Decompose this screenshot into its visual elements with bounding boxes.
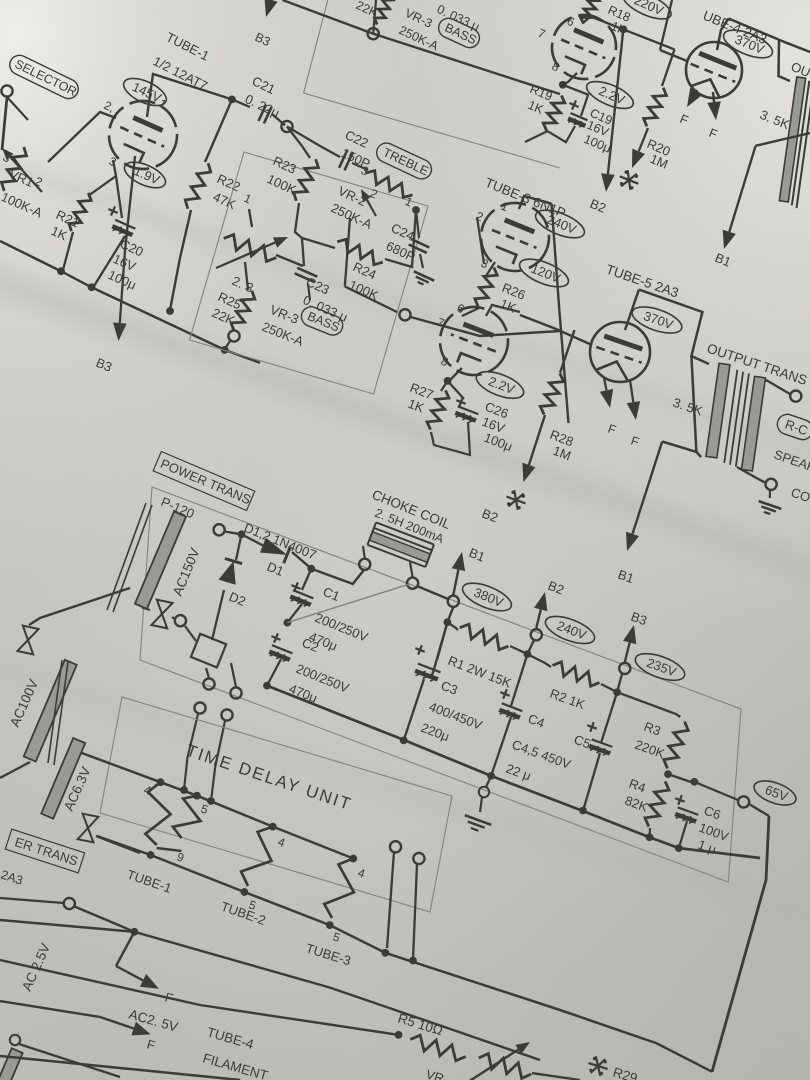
wire tube3 plate up xyxy=(519,196,552,209)
wire C1 top xyxy=(302,569,311,590)
pin 5 td2 xyxy=(247,898,258,914)
wire C1 to C2 xyxy=(287,604,302,623)
junction R3 R4 xyxy=(664,770,672,778)
wire tube4 plate up xyxy=(717,19,729,51)
label pin 1 xyxy=(157,96,169,112)
winding AC150V xyxy=(135,512,186,609)
junction C5 bus xyxy=(579,807,587,815)
wire vr3 to C23 xyxy=(276,255,303,266)
label R5 10ohm xyxy=(396,1011,444,1039)
wire R3R4 to C6 node xyxy=(668,774,691,782)
wire R21 to bus xyxy=(63,232,73,270)
wire ac25 bus xyxy=(0,907,540,1061)
box lower tone control xyxy=(190,152,429,394)
tube U5 TUBE-5 xyxy=(590,322,650,382)
winding AC100V xyxy=(24,660,77,762)
wire cathode down long xyxy=(125,156,135,250)
junction C2 bus xyxy=(263,682,271,690)
label R20 xyxy=(645,136,673,172)
wire opt5 primary bottom xyxy=(662,442,696,452)
wire tube2 cathode down xyxy=(563,73,577,85)
wire R2 left xyxy=(527,654,551,667)
junction R1 C4 xyxy=(524,650,532,658)
label R2 1K xyxy=(548,686,587,713)
label TIME DELAY UNIT xyxy=(184,741,355,814)
resistor 22K upper xyxy=(354,0,394,25)
resistor R23 xyxy=(265,153,319,201)
terminal power top xyxy=(214,524,225,535)
terminal tube3 grid xyxy=(399,309,410,320)
wire to R21 xyxy=(88,176,116,196)
resistor R3 xyxy=(633,719,688,769)
label TUBE-3 td xyxy=(304,941,353,969)
label R21 xyxy=(54,207,82,230)
pin 4 td1 xyxy=(142,783,153,799)
label TUBE-4 fil xyxy=(205,1024,256,1052)
wire opt5 secondary top xyxy=(766,380,790,394)
label TUBE-1 xyxy=(164,29,212,63)
wire 235 node down xyxy=(617,674,622,692)
label CHOKE COIL xyxy=(370,487,453,532)
junction td term2 bus xyxy=(409,957,417,965)
label TUBE-3 6N1P xyxy=(483,175,568,221)
terminal upper channel xyxy=(368,28,379,39)
junction B3 stem xyxy=(221,346,229,354)
diode D1 xyxy=(260,537,291,563)
terminal sec C xyxy=(194,702,205,713)
wire R3 branch xyxy=(617,692,680,717)
terminal choke left xyxy=(359,559,370,570)
label R29 xyxy=(611,1065,639,1080)
junction R5 left xyxy=(395,1031,403,1039)
label 3.5K tube5 xyxy=(671,395,705,419)
potentiometer VR1 xyxy=(2,147,43,192)
label VR bottom xyxy=(424,1067,450,1080)
wire b1 step tube4 xyxy=(756,133,810,146)
wire C6 node to 65V xyxy=(694,782,738,800)
terminal sec A xyxy=(203,678,214,689)
net F arrow1 tube5 xyxy=(600,378,613,408)
net F arrow2 tube5 xyxy=(627,380,641,420)
wire R20 top xyxy=(592,17,675,49)
pin 2 tube3 xyxy=(474,209,486,225)
junction R1 tap xyxy=(444,618,452,626)
wire c1c2 mid right xyxy=(287,584,409,623)
opt4 winding bars xyxy=(779,77,810,208)
wire tube3 plate drop xyxy=(552,204,569,423)
wire R22 to bus xyxy=(166,210,191,315)
label AC150V xyxy=(170,546,203,598)
net B1 arrow tube4 xyxy=(723,146,756,249)
label AC2.5V xyxy=(127,1006,179,1034)
net B1 arrow up xyxy=(452,552,465,595)
wire R25 term to bus xyxy=(225,341,230,349)
terminal R25 xyxy=(228,330,239,341)
wire tube3b plate up xyxy=(486,305,520,316)
voltage 145V xyxy=(120,73,171,111)
voltage 370V tube5 xyxy=(629,302,685,339)
relay heater tube1b xyxy=(173,796,201,838)
net B3 arrow upper xyxy=(265,0,278,17)
resistor R21 xyxy=(69,193,91,231)
winding AC63V xyxy=(41,738,85,819)
diode D2 xyxy=(219,559,243,585)
junction C1 C2 xyxy=(284,619,292,627)
wire td term1 down xyxy=(387,852,394,948)
ground main xyxy=(465,776,491,831)
fuse bowtie AC63V xyxy=(78,814,99,843)
tube U3 TUBE-3 lower xyxy=(430,297,518,385)
junction R2 C5 xyxy=(613,688,621,696)
tube U4 TUBE-4 xyxy=(686,42,742,98)
resistor R26 xyxy=(475,268,528,316)
label F ac25 2 xyxy=(145,1036,157,1053)
wire node to R24 xyxy=(302,238,335,248)
wire R23 bottom to R24 node xyxy=(295,203,302,238)
label 2A3 trans xyxy=(0,868,25,888)
wire tube4 grid xyxy=(660,50,687,61)
terminal COM xyxy=(766,479,777,490)
wire C5 down xyxy=(601,692,617,743)
wire R1 right xyxy=(510,646,527,654)
junction plate node xyxy=(228,96,236,104)
label 100u xyxy=(106,267,139,293)
wire C24 down xyxy=(416,210,423,268)
pin 6 tube2 xyxy=(565,14,577,30)
pin 2 treble xyxy=(368,186,380,202)
voltage 2.2V tube3 xyxy=(473,366,527,404)
label OUTPUT TRANS xyxy=(705,341,809,388)
wire B3 bus left xyxy=(0,241,260,363)
label B3 left xyxy=(94,355,114,375)
wire tube4 step down xyxy=(779,40,791,81)
wire ac63 out xyxy=(96,836,140,853)
capacitor C4 xyxy=(499,689,547,730)
crossover jog D2 xyxy=(191,634,226,668)
outline lower block xyxy=(712,816,769,1072)
label R22 xyxy=(215,171,243,194)
net B2 via R28 xyxy=(522,415,545,482)
label AC63V xyxy=(61,765,94,814)
label F tube4 1 xyxy=(678,112,691,128)
node SELECTOR label xyxy=(6,52,81,102)
wire junction to C21 xyxy=(232,99,250,107)
junction D1 in xyxy=(238,530,246,538)
wire cathode tube1 xyxy=(113,160,116,176)
label FILAMENT xyxy=(201,1050,269,1080)
terminal power bottom xyxy=(175,615,186,626)
resistor R27 xyxy=(406,380,449,430)
wire C5 to bus xyxy=(583,753,600,811)
resistor R2 xyxy=(553,662,600,686)
value 0.033u upper xyxy=(435,2,482,34)
wire R27 C26 bottom xyxy=(431,422,470,455)
wire R23 top xyxy=(287,127,310,159)
label TUBE-5 2A3 xyxy=(604,262,681,301)
voltage 220V tube2 xyxy=(619,0,675,25)
net B1 arrow tube5 xyxy=(626,442,662,552)
wire tube2 plate up xyxy=(584,17,590,22)
wire vr right xyxy=(532,1073,580,1080)
resistor R28 line xyxy=(560,330,575,373)
capacitor C26 xyxy=(455,397,514,454)
wire C6 to bus xyxy=(679,821,687,848)
wire heater bus A xyxy=(71,749,353,859)
label B2 tube3 xyxy=(588,196,608,216)
capacitor C23 xyxy=(295,268,318,282)
junction td t1p4 xyxy=(157,778,165,786)
label D12 1N4007 xyxy=(242,520,319,563)
label D2 xyxy=(227,589,248,609)
tube U3 TUBE-3 upper xyxy=(471,193,560,282)
junction td bus B t3 xyxy=(326,921,334,929)
label BASS upper xyxy=(435,15,482,51)
terminal from selector xyxy=(1,85,12,96)
wire R20 down xyxy=(662,49,675,86)
wire terminal to bus right xyxy=(411,317,561,336)
net B2 arrow up ps xyxy=(534,592,547,628)
wire 65V down xyxy=(749,804,769,816)
label 2 pin tube1 xyxy=(102,98,117,115)
label 3 pin VR1 xyxy=(1,150,13,166)
label 22u xyxy=(504,761,533,784)
wire R2 right xyxy=(601,684,617,692)
wire R1 left xyxy=(447,622,458,630)
wire R4 to bus xyxy=(648,828,651,837)
wire VR3 bottom to R25 xyxy=(245,262,248,290)
pin 1 treble xyxy=(403,194,415,210)
label BASS lower xyxy=(298,304,345,338)
junction td t3p4 xyxy=(349,855,357,863)
terminal td 2 xyxy=(413,853,424,864)
resistor R20 xyxy=(644,88,667,127)
junction C20 bus xyxy=(88,283,96,291)
wire D2 top xyxy=(236,534,242,560)
label F tube5 1 xyxy=(606,422,618,438)
label B1 tube5 xyxy=(616,567,636,586)
label P-120 xyxy=(159,494,197,521)
wire choke out to 380 node xyxy=(417,586,448,599)
tube U2 TUBE-2 xyxy=(542,5,626,89)
wire sec A up xyxy=(206,668,209,678)
wire tube2-4 couple lineA xyxy=(660,0,672,50)
capacitor C19 xyxy=(547,85,614,156)
fuse bowtie power xyxy=(151,600,172,629)
fuse bowtie AC100V xyxy=(17,626,38,655)
box upper tone control xyxy=(304,0,560,168)
label VR1 2 xyxy=(7,166,45,190)
wire 380 node down xyxy=(431,607,453,678)
wire grid to tube1 xyxy=(48,112,116,162)
label 2. 3 xyxy=(230,273,256,296)
net F arrow ac25 2 xyxy=(100,1017,151,1036)
wire bus B ext xyxy=(385,953,712,1072)
pin 7 tube3b xyxy=(435,315,447,331)
net B2 via R20 xyxy=(632,128,648,168)
pin 1 tube3 xyxy=(499,199,511,215)
pin 6 tube3b xyxy=(455,301,467,317)
terminal 235V node xyxy=(619,663,630,674)
wire bass out up xyxy=(345,218,350,287)
wire C21 to terminal xyxy=(272,114,285,125)
voltage 65V xyxy=(751,776,799,810)
wire R25 to terminal xyxy=(240,330,250,333)
voltage 2.2V tube2 xyxy=(583,76,637,114)
junction td bus B t2 xyxy=(241,888,249,896)
label C23 xyxy=(301,274,350,325)
resistor R18 xyxy=(581,0,633,38)
junction td bus B out xyxy=(381,949,389,957)
label TUBE-2 td xyxy=(219,899,268,928)
wire bass out to grid circle xyxy=(345,287,397,313)
wire f2 stem xyxy=(0,1001,100,1017)
wire upper channel to circle xyxy=(283,0,374,34)
label R-CH box xyxy=(775,412,810,443)
resistor R4 xyxy=(623,776,669,827)
label C20 xyxy=(118,236,146,259)
label AC100V xyxy=(7,677,41,729)
label B1 ps xyxy=(467,545,487,565)
resistor R22 xyxy=(185,163,210,209)
power trans core line2 xyxy=(113,505,152,612)
potentiometer VR bottom xyxy=(468,1042,531,1080)
label B3 upper xyxy=(253,30,273,49)
label VR-2 xyxy=(329,183,375,232)
junction C4 bus xyxy=(487,772,495,780)
capacitor C1 xyxy=(290,582,370,653)
label B2 r28 xyxy=(480,506,500,526)
capacitor C24 xyxy=(384,220,430,264)
capacitor C2 xyxy=(269,633,351,705)
label 47K xyxy=(211,189,239,212)
label TUBE-4 2A3 xyxy=(701,8,769,47)
voltage 370V tube4 xyxy=(720,25,776,64)
pin 3 treble xyxy=(359,163,371,179)
terminal td 1 xyxy=(390,841,401,852)
terminal after C21 xyxy=(281,121,292,132)
net B3 arrow up ps xyxy=(623,625,636,662)
pin 3 tube3 xyxy=(479,256,491,272)
junction td t2p4 xyxy=(269,823,277,831)
wire sec C down xyxy=(180,714,198,794)
voltage 380V xyxy=(459,578,515,617)
wire sec B up xyxy=(231,663,236,687)
relay heater tube2 xyxy=(241,827,273,886)
wire heater bus B xyxy=(97,836,385,953)
label TREBLE xyxy=(373,140,434,182)
box time delay xyxy=(100,697,452,912)
voltage 235V xyxy=(632,648,688,686)
wire D2 down xyxy=(212,590,224,640)
wire opt5 secondary bottom xyxy=(737,467,766,483)
wire td term2 down xyxy=(413,864,417,960)
label B2 ps xyxy=(546,578,566,598)
label F tube5 2 xyxy=(629,434,641,450)
junction R4 bus xyxy=(646,833,654,841)
wire choke stub left xyxy=(363,546,365,558)
ground COM xyxy=(759,490,782,514)
wire ac100 down xyxy=(0,762,30,778)
potentiometer VR-3 xyxy=(216,235,288,268)
winding 25v corner xyxy=(0,1048,23,1080)
wire R19 bottom xyxy=(525,131,547,142)
wire C22 to treble xyxy=(352,163,368,170)
symbol kome R20 xyxy=(620,170,639,190)
wire vr3 top xyxy=(249,209,252,227)
label 3.5K tube4 xyxy=(758,107,792,132)
label POWER TRANS box xyxy=(153,451,255,510)
wire bottom left bus xyxy=(0,1035,240,1080)
junction ac25 xyxy=(131,928,139,936)
label 1K xyxy=(49,223,70,243)
wire C3 down xyxy=(404,679,424,740)
capacitor C3 xyxy=(415,645,484,744)
choke coil symbol xyxy=(367,522,433,567)
junction B2 tap xyxy=(619,26,627,34)
wire tube5 plate diag xyxy=(639,290,709,364)
label C45 450V xyxy=(510,737,573,772)
terminal 65V xyxy=(738,796,749,807)
pin 8 tube3b xyxy=(439,354,451,370)
relay heater tube1a xyxy=(145,782,170,845)
wire choke stub right xyxy=(410,562,413,577)
wire 25v left xyxy=(0,898,64,903)
label B1 tube4 xyxy=(713,250,733,270)
wire cathode tube3b xyxy=(450,368,462,380)
label pin 3 xyxy=(107,154,119,170)
capacitor C6 xyxy=(675,795,731,857)
wire upper to tube2 grid xyxy=(373,34,560,94)
label R28 xyxy=(548,427,576,463)
wire bass upper stub xyxy=(373,0,376,34)
label ER TRANS xyxy=(5,829,84,873)
wire tube5 grid in xyxy=(520,315,592,345)
junction C6 top xyxy=(690,778,698,786)
resistor R25 xyxy=(210,289,255,331)
wire pin2 link xyxy=(477,217,484,264)
net B3 arrow xyxy=(113,250,127,341)
pin 5 td1 xyxy=(199,802,210,818)
resistor R24 xyxy=(337,239,383,303)
capacitor C20 xyxy=(108,206,135,236)
wire tube5 plate up xyxy=(625,290,639,330)
wire C2 down xyxy=(267,659,281,686)
pin 4 td2 xyxy=(276,835,287,851)
terminal sec B xyxy=(230,687,241,698)
junction R19 top xyxy=(559,81,567,89)
wire C4 down xyxy=(511,654,527,706)
label 100K-A xyxy=(0,189,45,220)
label 16V xyxy=(111,251,139,274)
wire sec D down xyxy=(207,721,225,805)
junction td t1p5 xyxy=(193,792,201,800)
label D1 xyxy=(265,559,286,579)
pin 4 td3 xyxy=(356,866,367,882)
wire power top to D1 xyxy=(225,532,242,535)
opt5 primary left edge xyxy=(691,356,701,457)
wire plate tube1 to junction xyxy=(147,74,232,117)
terminal choke right xyxy=(407,578,418,589)
wire R1 node down to C3 xyxy=(437,622,447,660)
opt5 winding bars xyxy=(705,363,767,471)
voltage 240V xyxy=(542,611,598,649)
resistor R5 xyxy=(410,1035,465,1061)
capacitor C21 xyxy=(243,73,282,123)
wire td1 bar xyxy=(157,848,182,851)
ground C24 xyxy=(414,271,434,284)
wire tube3 cathode xyxy=(486,262,495,276)
wire junction to C20 xyxy=(116,176,122,218)
